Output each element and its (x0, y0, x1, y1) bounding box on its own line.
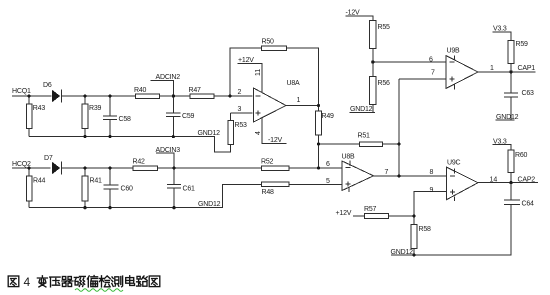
capacitor C58 (103, 96, 131, 137)
resistor R57 (364, 206, 414, 218)
svg-text:R59: R59 (516, 41, 529, 48)
svg-text:C64: C64 (522, 201, 535, 208)
char 图 (8, 276, 19, 287)
svg-text:R53: R53 (235, 122, 248, 129)
op-amp U9C (430, 160, 498, 202)
resistor R59 (508, 40, 528, 72)
resistor R52 (261, 159, 289, 171)
svg-text:C61: C61 (183, 186, 196, 193)
power +12V (336, 210, 365, 217)
svg-text:R47: R47 (189, 87, 202, 94)
op-amp U8B (326, 154, 389, 193)
resistor R39 (82, 96, 101, 137)
resistor R40 (134, 87, 160, 98)
power V3.3 (493, 26, 511, 41)
svg-text:C58: C58 (119, 116, 132, 123)
node HCQ2 (12, 161, 31, 168)
svg-text:R58: R58 (419, 226, 432, 233)
resistor R51 (319, 133, 399, 147)
svg-text:R40: R40 (134, 87, 147, 94)
node ADCIN2 (150, 74, 180, 96)
resistor R49 (316, 106, 334, 145)
svg-text:R52: R52 (261, 159, 274, 166)
svg-text:U9C: U9C (447, 160, 461, 167)
svg-text:8: 8 (430, 169, 434, 176)
svg-text:R39: R39 (89, 105, 102, 112)
power +12V (238, 57, 263, 93)
wire (29, 184, 261, 207)
net GND12 (391, 249, 414, 256)
wire (286, 105, 319, 107)
svg-text:4: 4 (24, 275, 31, 289)
char 变 (37, 276, 47, 287)
wire (373, 79, 399, 176)
svg-text:C60: C60 (121, 186, 134, 193)
svg-text:3: 3 (238, 106, 242, 113)
svg-text:D6: D6 (43, 82, 52, 89)
svg-text:7: 7 (431, 70, 435, 77)
resistor R60 (508, 150, 528, 183)
svg-text:1: 1 (297, 97, 301, 104)
node HCQ1 (12, 88, 31, 95)
net GND12 (198, 201, 221, 208)
power V3.3 (493, 138, 511, 150)
spellcheck squiggle (75, 289, 123, 292)
svg-text:R49: R49 (322, 113, 335, 120)
char 图 (149, 276, 160, 287)
wire (12, 167, 261, 169)
wire (478, 182, 511, 184)
net CAP2 (511, 177, 538, 184)
char 磁 (74, 276, 85, 286)
char 器 (62, 277, 73, 287)
svg-text:-12V: -12V (346, 10, 361, 17)
svg-text:U8A: U8A (287, 80, 301, 87)
svg-text:7: 7 (385, 169, 389, 176)
svg-text:R57: R57 (364, 206, 377, 213)
wire (318, 144, 320, 168)
char 偏 (87, 276, 97, 287)
node ADCIN3 (156, 147, 181, 168)
svg-text:4: 4 (255, 131, 262, 135)
net CAP1 (511, 65, 536, 72)
svg-text:6: 6 (429, 57, 433, 64)
svg-text:R51: R51 (358, 133, 371, 140)
net GND12 (495, 114, 518, 121)
svg-text:C59: C59 (182, 113, 195, 120)
svg-text:GND12: GND12 (198, 130, 221, 137)
power -12V (346, 10, 373, 21)
svg-text:-12V: -12V (268, 137, 283, 144)
svg-text:R43: R43 (33, 105, 46, 112)
capacitor C59 (166, 96, 194, 137)
svg-text:R42: R42 (133, 159, 146, 166)
resistor R42 (133, 159, 158, 171)
resistor R55 (370, 21, 390, 77)
svg-text:9: 9 (430, 187, 434, 194)
svg-text:GND12: GND12 (350, 106, 373, 113)
wire (399, 78, 446, 80)
svg-text:6: 6 (326, 161, 330, 168)
capacitor C64 (504, 183, 534, 208)
diode D6 (43, 82, 61, 102)
svg-text:U8B: U8B (342, 154, 356, 161)
svg-text:5: 5 (326, 178, 330, 185)
wire (289, 168, 342, 184)
svg-text:1: 1 (490, 65, 494, 72)
svg-text:GND12: GND12 (198, 201, 221, 208)
diode D7 (44, 155, 61, 174)
power -12V (255, 118, 287, 144)
svg-text:CAP1: CAP1 (518, 65, 536, 72)
char 检 (99, 276, 110, 287)
svg-text:R48: R48 (262, 189, 275, 196)
capacitor C61 (167, 168, 195, 208)
wire (231, 112, 253, 114)
char 电 (126, 276, 135, 286)
svg-text:R41: R41 (90, 178, 103, 185)
svg-text:C63: C63 (522, 90, 535, 97)
resistor R53 (228, 113, 247, 145)
resistor R50 (230, 39, 319, 106)
wire (414, 192, 446, 217)
wire (399, 175, 446, 177)
capacitor C60 (103, 168, 133, 208)
wire (478, 71, 512, 73)
wire (29, 137, 231, 152)
capacitor C63 (504, 72, 534, 120)
svg-text:U9B: U9B (447, 48, 461, 55)
resistor R58 (411, 216, 431, 255)
wire (391, 204, 511, 255)
svg-text:R56: R56 (378, 80, 391, 87)
svg-text:D7: D7 (44, 155, 53, 162)
wire (373, 61, 446, 63)
resistor R48 (261, 182, 289, 196)
net GND12 (350, 106, 375, 113)
svg-text:R50: R50 (262, 39, 275, 46)
svg-text:+12V: +12V (336, 210, 352, 217)
char 测 (112, 276, 123, 287)
resistor R44 (26, 168, 45, 208)
char 路 (137, 276, 148, 286)
svg-text:11: 11 (255, 69, 262, 76)
op-amp U8A (238, 80, 301, 122)
char 压 (50, 277, 60, 287)
svg-text:+12V: +12V (238, 57, 254, 64)
svg-text:R60: R60 (515, 152, 528, 159)
caption: 图 4 变压器磁偏检测电路图 (8, 275, 160, 289)
svg-text:R55: R55 (378, 24, 391, 31)
net GND12 (198, 130, 221, 137)
resistor R41 (82, 168, 102, 208)
svg-text:HCQ1: HCQ1 (12, 88, 31, 95)
wire (12, 95, 253, 97)
resistor R47 (189, 87, 214, 98)
resistor R43 (26, 96, 45, 137)
op-amp U9B (429, 48, 494, 90)
resistor R56 (370, 76, 390, 112)
svg-text:2: 2 (238, 89, 242, 96)
svg-text:R44: R44 (33, 178, 46, 185)
